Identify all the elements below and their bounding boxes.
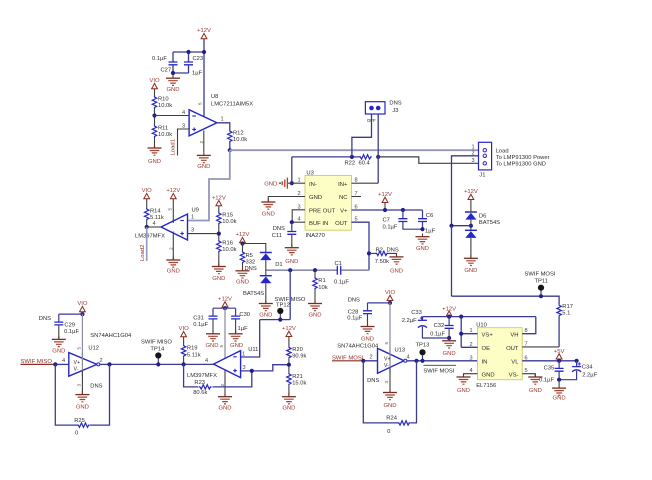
wire U3 pin4 stub <box>292 221 305 223</box>
svg-text:To LMP91300 Power: To LMP91300 Power <box>496 155 550 161</box>
svg-text:GND: GND <box>166 87 179 93</box>
svg-text:3: 3 <box>472 158 475 164</box>
node TP12 <box>278 318 282 322</box>
svg-text:+12V: +12V <box>197 28 211 34</box>
wire U3 pin3 to pin4 <box>292 210 305 222</box>
svg-text:VIO: VIO <box>142 188 153 194</box>
node C7 tap <box>401 208 405 212</box>
wire R15-R16 <box>218 225 220 241</box>
node D6 mid <box>469 224 473 228</box>
svg-text:R14: R14 <box>150 209 161 215</box>
capacitor C29 <box>39 316 80 335</box>
svg-text:R2: R2 <box>376 247 383 253</box>
svg-text:0: 0 <box>75 430 78 436</box>
svg-text:0.1µF: 0.1µF <box>430 331 445 337</box>
svg-text:GND: GND <box>482 372 495 378</box>
svg-text:GND: GND <box>230 343 243 349</box>
node TP14 <box>156 362 160 366</box>
svg-text:+12V: +12V <box>282 326 296 332</box>
svg-text:80.6k: 80.6k <box>193 390 207 396</box>
net SWIF MISO (U12 in) <box>21 359 54 365</box>
node cap bottom <box>171 71 175 75</box>
wire J3 left leg <box>352 114 372 157</box>
svg-text:U10: U10 <box>476 323 487 329</box>
svg-text:10k: 10k <box>318 285 327 291</box>
power +12V (R15) <box>212 196 226 206</box>
ground (D1) <box>259 300 273 318</box>
svg-text:2: 2 <box>199 141 204 144</box>
resistor R16 <box>217 240 237 253</box>
svg-text:D1: D1 <box>275 262 282 268</box>
wire cap rail <box>213 308 236 316</box>
svg-text:0.1µF: 0.1µF <box>383 225 398 231</box>
wire U12 output <box>100 363 110 365</box>
svg-text:V+: V+ <box>384 356 391 362</box>
svg-text:R11: R11 <box>158 126 168 132</box>
ground (C28) <box>361 323 375 342</box>
capacitor C32 <box>430 317 454 338</box>
wire OUT pin7 to R17 <box>522 346 559 348</box>
svg-text:1: 1 <box>221 117 224 123</box>
wire U11 pin3 <box>241 365 289 371</box>
svg-text:BAT54S: BAT54S <box>243 291 264 297</box>
svg-text:332: 332 <box>246 260 256 266</box>
wire D6 to gnd <box>470 238 472 258</box>
svg-text:R22: R22 <box>345 161 356 167</box>
node +12V <box>447 315 451 319</box>
node R20/R21 <box>287 363 291 367</box>
capacitor C27 <box>152 56 178 74</box>
wire C28 to gnd <box>367 314 369 327</box>
wire VIO to R10 <box>154 89 156 96</box>
svg-text:3: 3 <box>384 381 389 384</box>
svg-text:R10: R10 <box>158 97 169 103</box>
svg-text:1: 1 <box>191 215 194 221</box>
node R2 tap <box>367 251 371 255</box>
wire cap bottom rail <box>173 65 189 73</box>
svg-text:4: 4 <box>407 354 410 360</box>
svg-text:U13: U13 <box>395 347 406 353</box>
ground (U8) <box>197 152 211 170</box>
wire U13 pin2 input <box>361 360 378 362</box>
svg-text:DNS: DNS <box>348 298 360 304</box>
svg-text:V-: V- <box>74 366 79 372</box>
svg-text:2.2µF: 2.2µF <box>582 372 597 378</box>
capacitor C33 <box>402 310 427 328</box>
svg-text:0.1µF: 0.1µF <box>64 329 79 335</box>
svg-text:DNS: DNS <box>39 316 51 322</box>
svg-text:R20: R20 <box>292 347 303 353</box>
ground (R11) <box>148 145 162 165</box>
power VIO (U12) <box>77 301 88 312</box>
ground flat (U3 pin1) <box>264 178 292 189</box>
svg-text:GND: GND <box>236 280 249 286</box>
svg-text:8: 8 <box>525 328 528 334</box>
svg-text:C6: C6 <box>426 213 433 219</box>
test point TP11 <box>525 272 556 297</box>
wire caps bottom to gnd <box>559 371 577 380</box>
svg-text:10.0k: 10.0k <box>158 132 172 138</box>
svg-text:5: 5 <box>168 208 173 211</box>
svg-text:C31: C31 <box>193 316 204 322</box>
svg-text:4: 4 <box>205 358 208 364</box>
power +12V (U8 supply) <box>197 28 211 39</box>
svg-text:J3: J3 <box>392 108 398 114</box>
net SWIF MOSI (after U13) <box>423 365 456 374</box>
resistor R24 <box>386 415 410 434</box>
svg-text:R25: R25 <box>74 418 85 424</box>
wire Load2 stub <box>146 227 148 261</box>
svg-text:R17: R17 <box>562 304 573 310</box>
svg-text:Load1: Load1 <box>171 139 177 155</box>
svg-text:8: 8 <box>355 178 358 184</box>
power +12V (R5/D1) <box>236 232 250 243</box>
power VIO (U13) <box>385 290 396 301</box>
wire TP12 horizontal <box>260 319 291 321</box>
node R5 top <box>240 241 244 245</box>
wire R19 to node <box>183 357 185 364</box>
svg-text:INA270: INA270 <box>306 233 325 239</box>
power +12V (R20) <box>282 326 296 337</box>
svg-text:U8: U8 <box>211 94 218 100</box>
svg-text:R21: R21 <box>292 374 303 380</box>
svg-text:V-: V- <box>384 363 389 369</box>
svg-text:NC: NC <box>339 195 348 201</box>
wire VIO rail to C29 <box>59 312 83 322</box>
svg-text:C29: C29 <box>64 323 75 329</box>
op-amp U11 <box>187 347 258 379</box>
ground (U11) <box>218 394 232 412</box>
svg-text:2: 2 <box>298 191 301 197</box>
ground (R1) <box>308 300 322 318</box>
node VS+ riser <box>459 315 463 319</box>
svg-text:5.11k: 5.11k <box>187 352 201 358</box>
resistor R10 <box>152 96 172 109</box>
svg-text:+12V: +12V <box>236 232 250 238</box>
wire U8 V- to gnd <box>203 131 205 153</box>
svg-text:TP11: TP11 <box>535 278 548 284</box>
ground (C11) <box>285 245 299 265</box>
capacitor C30 <box>231 312 250 332</box>
wire U13 V+ feed <box>389 303 391 355</box>
node U12 output <box>107 362 111 366</box>
svg-text:1µF: 1µF <box>238 326 249 332</box>
wire C32 to gnd <box>448 328 450 338</box>
svg-text:GND: GND <box>259 312 272 318</box>
svg-text:GND: GND <box>212 276 225 282</box>
svg-text:GND: GND <box>443 351 456 357</box>
svg-text:C11: C11 <box>272 233 282 239</box>
wire caps bottom rail <box>403 222 423 230</box>
J1 texts <box>496 148 550 167</box>
capacitor C7 <box>383 218 408 231</box>
resistor R17 <box>557 304 573 317</box>
wire D6 mid <box>470 220 472 231</box>
svg-text:15.0k: 15.0k <box>292 380 306 386</box>
svg-text:5: 5 <box>355 217 358 223</box>
wire +12V top rail <box>422 316 535 318</box>
svg-text:DNS: DNS <box>90 383 102 389</box>
svg-text:4: 4 <box>153 221 156 227</box>
svg-text:TP13: TP13 <box>416 343 430 349</box>
resistor R1 <box>313 277 328 291</box>
svg-text:GND: GND <box>218 406 231 412</box>
svg-text:C35: C35 <box>544 365 555 371</box>
wire MISO main to U11 pin4 <box>110 363 214 365</box>
node +5V <box>557 359 561 363</box>
svg-text:C23: C23 <box>193 56 204 62</box>
svg-text:1µF: 1µF <box>192 71 203 77</box>
node on LMP power net <box>449 224 453 228</box>
ground (U12) <box>75 391 89 410</box>
svg-text:SN74AHC1G04: SN74AHC1G04 <box>337 344 379 350</box>
buffer U12 <box>69 333 132 376</box>
svg-text:10.0k: 10.0k <box>158 103 172 109</box>
ground (R16) <box>212 263 226 282</box>
wire VS- pin5 to gnd <box>522 374 535 377</box>
svg-text:IN: IN <box>482 360 488 366</box>
svg-text:10.0k: 10.0k <box>233 137 247 143</box>
resistor R23 <box>193 380 212 396</box>
svg-text:GND: GND <box>457 388 470 394</box>
svg-text:DNS: DNS <box>367 378 379 384</box>
svg-text:3: 3 <box>243 365 246 371</box>
node R23/pin3 <box>250 369 254 373</box>
node R1 tap <box>313 268 317 272</box>
svg-text:0.1µF: 0.1µF <box>152 56 167 62</box>
svg-text:1µF: 1µF <box>425 229 436 235</box>
wire VH loop <box>522 317 536 334</box>
ground (R5) <box>236 268 250 286</box>
svg-text:SWIF MISO: SWIF MISO <box>141 340 172 346</box>
svg-text:OE: OE <box>482 346 491 352</box>
svg-text:4: 4 <box>298 217 301 223</box>
svg-text:5.1: 5.1 <box>562 310 570 316</box>
svg-text:GND: GND <box>553 396 566 402</box>
svg-text:VL: VL <box>511 360 519 366</box>
wire U3 pin1 stub <box>292 182 305 184</box>
resistor R21 <box>287 373 307 387</box>
power +12V (U9 supply) <box>166 188 180 199</box>
svg-text:GND: GND <box>308 312 321 318</box>
wire U8 output to R12 <box>217 123 230 130</box>
svg-text:DNS: DNS <box>387 247 399 253</box>
svg-text:5: 5 <box>384 342 389 345</box>
wire U11 V+ feed <box>224 308 226 358</box>
svg-text:7: 7 <box>525 341 528 347</box>
svg-text:0.1µF: 0.1µF <box>193 322 208 328</box>
svg-text:+12V: +12V <box>378 192 392 198</box>
wire U8 pin3 input (Load1) <box>178 129 190 156</box>
resistor R15 <box>217 212 237 225</box>
svg-text:OUT: OUT <box>335 221 348 227</box>
diode D1 top <box>260 253 283 269</box>
svg-text:2.2µF: 2.2µF <box>402 318 417 324</box>
svg-text:VIO: VIO <box>179 326 190 332</box>
diode D6 top <box>465 212 500 226</box>
ground (C31) <box>205 331 220 350</box>
capacitor C1 <box>334 261 349 286</box>
svg-text:0.1µF: 0.1µF <box>347 316 362 322</box>
svg-text:V+: V+ <box>74 360 81 366</box>
node U3 pin4 <box>290 220 294 224</box>
svg-text:BUF IN: BUF IN <box>309 221 328 227</box>
svg-text:OUT: OUT <box>506 346 519 352</box>
ground (C30) <box>229 331 244 350</box>
svg-text:DNS: DNS <box>273 226 285 232</box>
op-amp U8 <box>189 94 253 136</box>
svg-text:GND: GND <box>309 195 322 201</box>
svg-text:R1: R1 <box>318 278 325 284</box>
capacitor C11 <box>272 226 297 239</box>
svg-text:C1: C1 <box>335 261 342 267</box>
wire R17 to pin7 <box>558 317 560 347</box>
node VS+ pin <box>459 332 463 336</box>
svg-text:3: 3 <box>298 204 301 210</box>
wire C6 stub <box>422 210 424 219</box>
node C35 bottom <box>557 378 561 382</box>
svg-text:To LMP91300 GND: To LMP91300 GND <box>496 161 546 167</box>
resistor R2 <box>375 247 399 264</box>
svg-text:R16: R16 <box>222 241 233 247</box>
wire bus B (IN- net) <box>292 156 361 158</box>
node divider <box>152 113 156 117</box>
capacitor C23 <box>184 56 203 77</box>
node R24 left <box>361 359 365 363</box>
power VIO (R14) <box>142 188 153 199</box>
wire D1 to gnd <box>265 283 267 303</box>
ground (R21) <box>282 394 296 412</box>
power VIO (R19) <box>179 326 190 337</box>
svg-text:IN-: IN- <box>309 182 317 188</box>
svg-text:VS+: VS+ <box>482 332 494 338</box>
ground (U13) <box>383 389 397 409</box>
svg-text:GND: GND <box>390 269 403 275</box>
svg-text:2: 2 <box>100 358 103 364</box>
wire R21 to gnd <box>288 385 290 396</box>
node VIO U13 <box>388 301 392 305</box>
net SWIF MOSI (U13 in) <box>332 355 364 361</box>
svg-text:SN74AHC1G04: SN74AHC1G04 <box>90 333 132 339</box>
power +12V (D6) <box>464 189 478 200</box>
wire R14 to node <box>146 221 148 228</box>
capacitor C31 <box>193 316 217 329</box>
wire +12V stub <box>384 203 386 210</box>
diode D1 bottom <box>243 276 272 297</box>
svg-text:C7: C7 <box>383 218 390 224</box>
wire R10-R11 <box>154 109 156 126</box>
wire bus to U9 pin1 <box>188 150 230 220</box>
wire U12 V+ feed <box>81 314 83 359</box>
wire C31 to gnd <box>212 319 214 334</box>
svg-text:GND: GND <box>197 164 210 170</box>
ground (C6/C7) <box>416 234 430 252</box>
IC U3 INA270 <box>305 171 352 240</box>
svg-text:5: 5 <box>219 345 224 348</box>
wire +12V to U9 V+ <box>172 199 174 223</box>
svg-text:5: 5 <box>77 347 82 350</box>
wire R5 to gnd <box>242 264 244 271</box>
svg-text:U12: U12 <box>88 345 99 351</box>
test point TP12 <box>275 297 306 320</box>
wire C29 to gnd <box>58 325 60 340</box>
wire R1 <box>314 270 316 277</box>
wire VS+/OE riser <box>461 317 477 348</box>
svg-text:2: 2 <box>370 354 373 360</box>
ground (C29) <box>52 336 66 354</box>
svg-text:1: 1 <box>242 352 245 358</box>
svg-text:1: 1 <box>298 178 301 184</box>
svg-text:Load: Load <box>496 148 509 154</box>
power VIO (R10 top) <box>149 78 160 89</box>
svg-text:3: 3 <box>470 355 473 361</box>
svg-text:LMC7211AIM5X: LMC7211AIM5X <box>211 102 253 108</box>
svg-text:GND: GND <box>464 268 477 274</box>
svg-text:BAT54S: BAT54S <box>479 220 500 226</box>
svg-text:V+: V+ <box>340 209 348 215</box>
capacitor C28 <box>347 298 372 322</box>
node U3 pin1 <box>290 181 294 185</box>
ground (R2) <box>390 254 404 275</box>
wire C33 to gnd rail <box>422 327 449 338</box>
svg-text:+12V: +12V <box>464 189 478 195</box>
power +12V (U10) <box>442 306 456 316</box>
svg-text:EL7156: EL7156 <box>476 383 496 389</box>
node C34 tap <box>575 359 579 363</box>
node comparator rail / TP12 riser <box>288 268 292 272</box>
svg-text:C28: C28 <box>348 309 359 315</box>
svg-text:SWIF MOSI: SWIF MOSI <box>423 368 454 374</box>
wire TP11 net <box>452 296 560 304</box>
wire R24 loop <box>363 361 416 423</box>
svg-text:D6: D6 <box>479 214 486 220</box>
svg-text:R19: R19 <box>187 346 198 352</box>
wire J1 pin2 down (LMP power net) <box>452 156 479 226</box>
svg-text:GND: GND <box>262 211 275 217</box>
svg-text:0.1µF: 0.1µF <box>334 280 349 286</box>
wire C30 to gnd <box>235 319 237 334</box>
wire R23 loop <box>184 364 252 387</box>
svg-text:GND: GND <box>361 336 374 342</box>
wire cap top rail <box>173 52 204 62</box>
wire VIO rail to C28 <box>368 301 391 311</box>
svg-text:6: 6 <box>355 205 358 211</box>
svg-text:2: 2 <box>472 150 475 156</box>
node R12 output <box>228 148 232 152</box>
node TP13 <box>420 359 424 363</box>
wire U9 pin3 to divider <box>188 233 219 235</box>
svg-text:C27: C27 <box>161 68 172 74</box>
svg-text:LM397MFX: LM397MFX <box>187 373 217 379</box>
svg-text:+12V: +12V <box>442 306 456 312</box>
svg-text:GND: GND <box>416 246 429 252</box>
resistor R14 <box>145 208 164 221</box>
wire R16 to gnd <box>218 253 220 267</box>
svg-text:90.9k: 90.9k <box>292 353 306 359</box>
svg-text:4: 4 <box>62 358 65 364</box>
ground (U3 pin2) <box>261 199 275 218</box>
wire U12 V- to gnd <box>81 371 83 395</box>
wire U13 output to U10 <box>407 360 478 362</box>
node R14 <box>145 225 149 229</box>
test point TP13 <box>416 343 430 362</box>
wire to C11 <box>291 222 293 231</box>
wire D6 tap <box>452 225 471 227</box>
op-amp U9 <box>135 208 199 241</box>
svg-text:0: 0 <box>387 429 390 435</box>
svg-text:U3: U3 <box>306 171 313 177</box>
resistor R20 <box>287 346 307 359</box>
